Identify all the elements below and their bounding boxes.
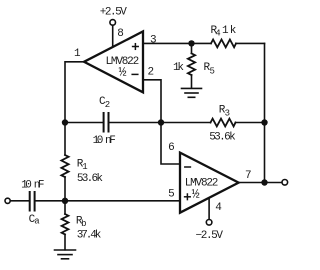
ground (below Rb) — [55, 250, 76, 259]
svg-text:7: 7 — [245, 170, 252, 182]
pin number 7 — [245, 170, 252, 182]
value 10 nF (C2) — [93, 135, 116, 147]
output terminal — [282, 180, 288, 186]
label R3 — [219, 105, 230, 119]
label -2.5V — [196, 230, 224, 242]
pin number 8 — [117, 28, 124, 40]
capacitor C2 — [104, 113, 109, 132]
value 53.6k (R3) — [209, 132, 236, 144]
svg-text:½: ½ — [119, 65, 127, 80]
svg-text:1: 1 — [82, 162, 87, 172]
svg-text:8: 8 — [117, 28, 124, 40]
wire: U2 pin 6 branch — [161, 123, 180, 165]
resistor R4 — [211, 40, 236, 48]
value 10 nF (Ca) — [21, 180, 44, 192]
pin number 3 — [150, 35, 157, 47]
pin number 6 — [168, 142, 175, 154]
wire: R5 to ground — [191, 75, 193, 88]
svg-text:+2.5V: +2.5V — [100, 6, 127, 18]
label U1 half — [119, 65, 127, 80]
resistor R3 — [211, 119, 236, 127]
resistor R1 — [61, 155, 68, 177]
value 53.6k (R1) — [77, 173, 103, 185]
capacitor Ca — [30, 192, 35, 211]
label C2 — [99, 96, 110, 110]
node: C2 right junction — [158, 119, 164, 125]
node: R3 right junction — [261, 119, 267, 125]
svg-text:−2.5V: −2.5V — [196, 230, 224, 242]
wire: C2/R3 horizontal rail — [65, 122, 265, 124]
+2.5V terminal — [110, 20, 116, 26]
wire: R4 to right bus — [236, 42, 265, 44]
value 37.4k (Rb) — [77, 230, 102, 242]
op-amp U2 — [180, 153, 239, 213]
svg-text:1: 1 — [74, 48, 81, 60]
resistor R5 — [188, 53, 195, 75]
-2.5V terminal — [206, 220, 212, 226]
node: input junction — [62, 198, 68, 204]
svg-text:10 nF: 10 nF — [93, 135, 116, 147]
svg-text:3: 3 — [225, 108, 230, 118]
value 1k (R4) — [222, 25, 237, 37]
op-amp U1 minus input mark — [132, 73, 138, 75]
svg-text:6: 6 — [168, 142, 175, 154]
svg-text:4: 4 — [215, 29, 220, 39]
label U2 half — [192, 187, 200, 202]
label Ca — [29, 214, 41, 227]
svg-text:½: ½ — [192, 187, 200, 202]
wire: U2 pin 4 to -2.5V supply — [208, 198, 210, 220]
node: R4/R5 junction — [188, 40, 194, 46]
label U2 LMV822 — [185, 178, 219, 190]
label U1 LMV822 — [106, 56, 140, 68]
op-amp U2 plus input mark — [185, 194, 191, 200]
label Rb — [76, 216, 87, 230]
wire: Rb to ground — [64, 234, 66, 249]
pin number 2 — [148, 67, 155, 79]
value 1k (R5) — [173, 62, 184, 74]
wire: U1 pin 2 branch — [143, 80, 161, 123]
wire: U1 pin 3 to R4 — [143, 42, 211, 44]
svg-text:2: 2 — [105, 100, 110, 110]
svg-text:1k: 1k — [173, 62, 184, 74]
svg-text:2: 2 — [148, 67, 155, 79]
svg-text:1k: 1k — [222, 25, 237, 37]
right bus wire — [264, 43, 266, 182]
svg-text:37.4k: 37.4k — [77, 230, 102, 242]
label R4 — [211, 25, 221, 39]
svg-text:b: b — [81, 219, 86, 229]
svg-text:a: a — [34, 217, 40, 227]
wire: U1 output to left bus — [65, 62, 84, 155]
wire: R1 to input node — [64, 177, 66, 214]
node: C2 left junction — [62, 119, 68, 125]
pin number 5 — [168, 188, 175, 200]
wire: junction to R5 — [191, 43, 193, 53]
op-amp U1 — [84, 31, 143, 92]
op-amp U2 minus input mark — [185, 166, 191, 168]
op-amp U1 plus input mark — [133, 44, 139, 50]
wire: input horizontal to pin 5 — [11, 200, 180, 202]
svg-text:5: 5 — [210, 66, 215, 76]
input terminal — [5, 198, 10, 203]
svg-text:LMV822: LMV822 — [185, 178, 219, 190]
wire: +2.5V supply to U1 pin 8 — [112, 26, 114, 47]
label R1 — [77, 159, 88, 173]
svg-text:3: 3 — [150, 35, 157, 47]
label R5 — [204, 62, 215, 77]
node: output junction — [261, 179, 267, 185]
wire: U2 pin 7 to output — [239, 182, 282, 184]
svg-text:4: 4 — [215, 202, 222, 214]
resistor Rb — [62, 214, 69, 234]
svg-text:53.6k: 53.6k — [209, 132, 236, 144]
svg-text:53.6k: 53.6k — [77, 173, 103, 185]
pin number 1 — [74, 48, 81, 60]
svg-text:10 nF: 10 nF — [21, 180, 44, 192]
pin number 4 — [215, 202, 222, 214]
svg-text:5: 5 — [168, 188, 175, 200]
label +2.5V — [100, 6, 127, 18]
ground (below R5) — [182, 88, 202, 97]
